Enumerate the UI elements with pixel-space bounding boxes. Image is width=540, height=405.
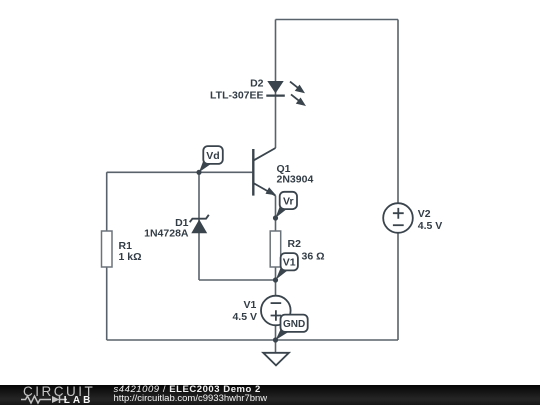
svg-text:GND: GND: [283, 319, 305, 330]
svg-text:4.5 V: 4.5 V: [232, 311, 257, 323]
node flag Vr: [275, 192, 297, 218]
wire: left branch: [106, 172, 108, 340]
footer bar: [0, 385, 540, 405]
svg-text:Vd: Vd: [206, 150, 219, 162]
svg-text:D2: D2: [250, 77, 264, 89]
resistor R1: [102, 231, 113, 267]
voltage source V1: [261, 296, 291, 326]
footer text: [114, 385, 268, 404]
zener diode D1: [190, 215, 209, 234]
svg-text:V1: V1: [243, 299, 256, 311]
svg-text:LTL-307EE: LTL-307EE: [210, 90, 263, 102]
wire: bottom rail: [107, 339, 398, 341]
svg-text:R2: R2: [288, 238, 302, 250]
wire: right branch lower: [397, 233, 399, 340]
node junction at Vr: [273, 215, 278, 220]
wire: zener to node V1: [199, 279, 276, 281]
wire: ground stub: [275, 340, 277, 353]
svg-text:4.5 V: 4.5 V: [418, 220, 443, 232]
svg-text:Vr: Vr: [283, 195, 294, 207]
ground: [263, 353, 289, 366]
wire: top rail: [276, 19, 399, 21]
svg-text:V2: V2: [418, 208, 431, 220]
transistor Q1: [253, 148, 275, 196]
node junction at Vd: [196, 170, 201, 175]
voltage source V2: [383, 203, 413, 233]
svg-text:1 kΩ: 1 kΩ: [119, 251, 142, 263]
wire: base wire node Vd: [107, 171, 253, 173]
node junction at V1: [273, 277, 278, 282]
wire: LED / collector branch: [275, 20, 277, 149]
resistor R2: [270, 231, 281, 267]
svg-text:36 Ω: 36 Ω: [302, 251, 325, 263]
node flag V1: [276, 253, 298, 280]
node junction at GND: [273, 337, 278, 342]
node flag Vd: [199, 146, 223, 172]
node flag GND: [276, 315, 308, 340]
svg-text:V1: V1: [283, 257, 296, 269]
LED D2: [266, 81, 304, 105]
svg-text:LAB: LAB: [64, 395, 94, 405]
svg-text:2N3904: 2N3904: [277, 173, 314, 185]
CircuitLab logo: [0, 385, 110, 405]
wire: zener branch: [198, 172, 200, 280]
wire: right branch upper: [397, 20, 399, 204]
svg-text:1N4728A: 1N4728A: [144, 228, 189, 240]
wire: emitter branch to R2 and V1: [275, 196, 277, 340]
